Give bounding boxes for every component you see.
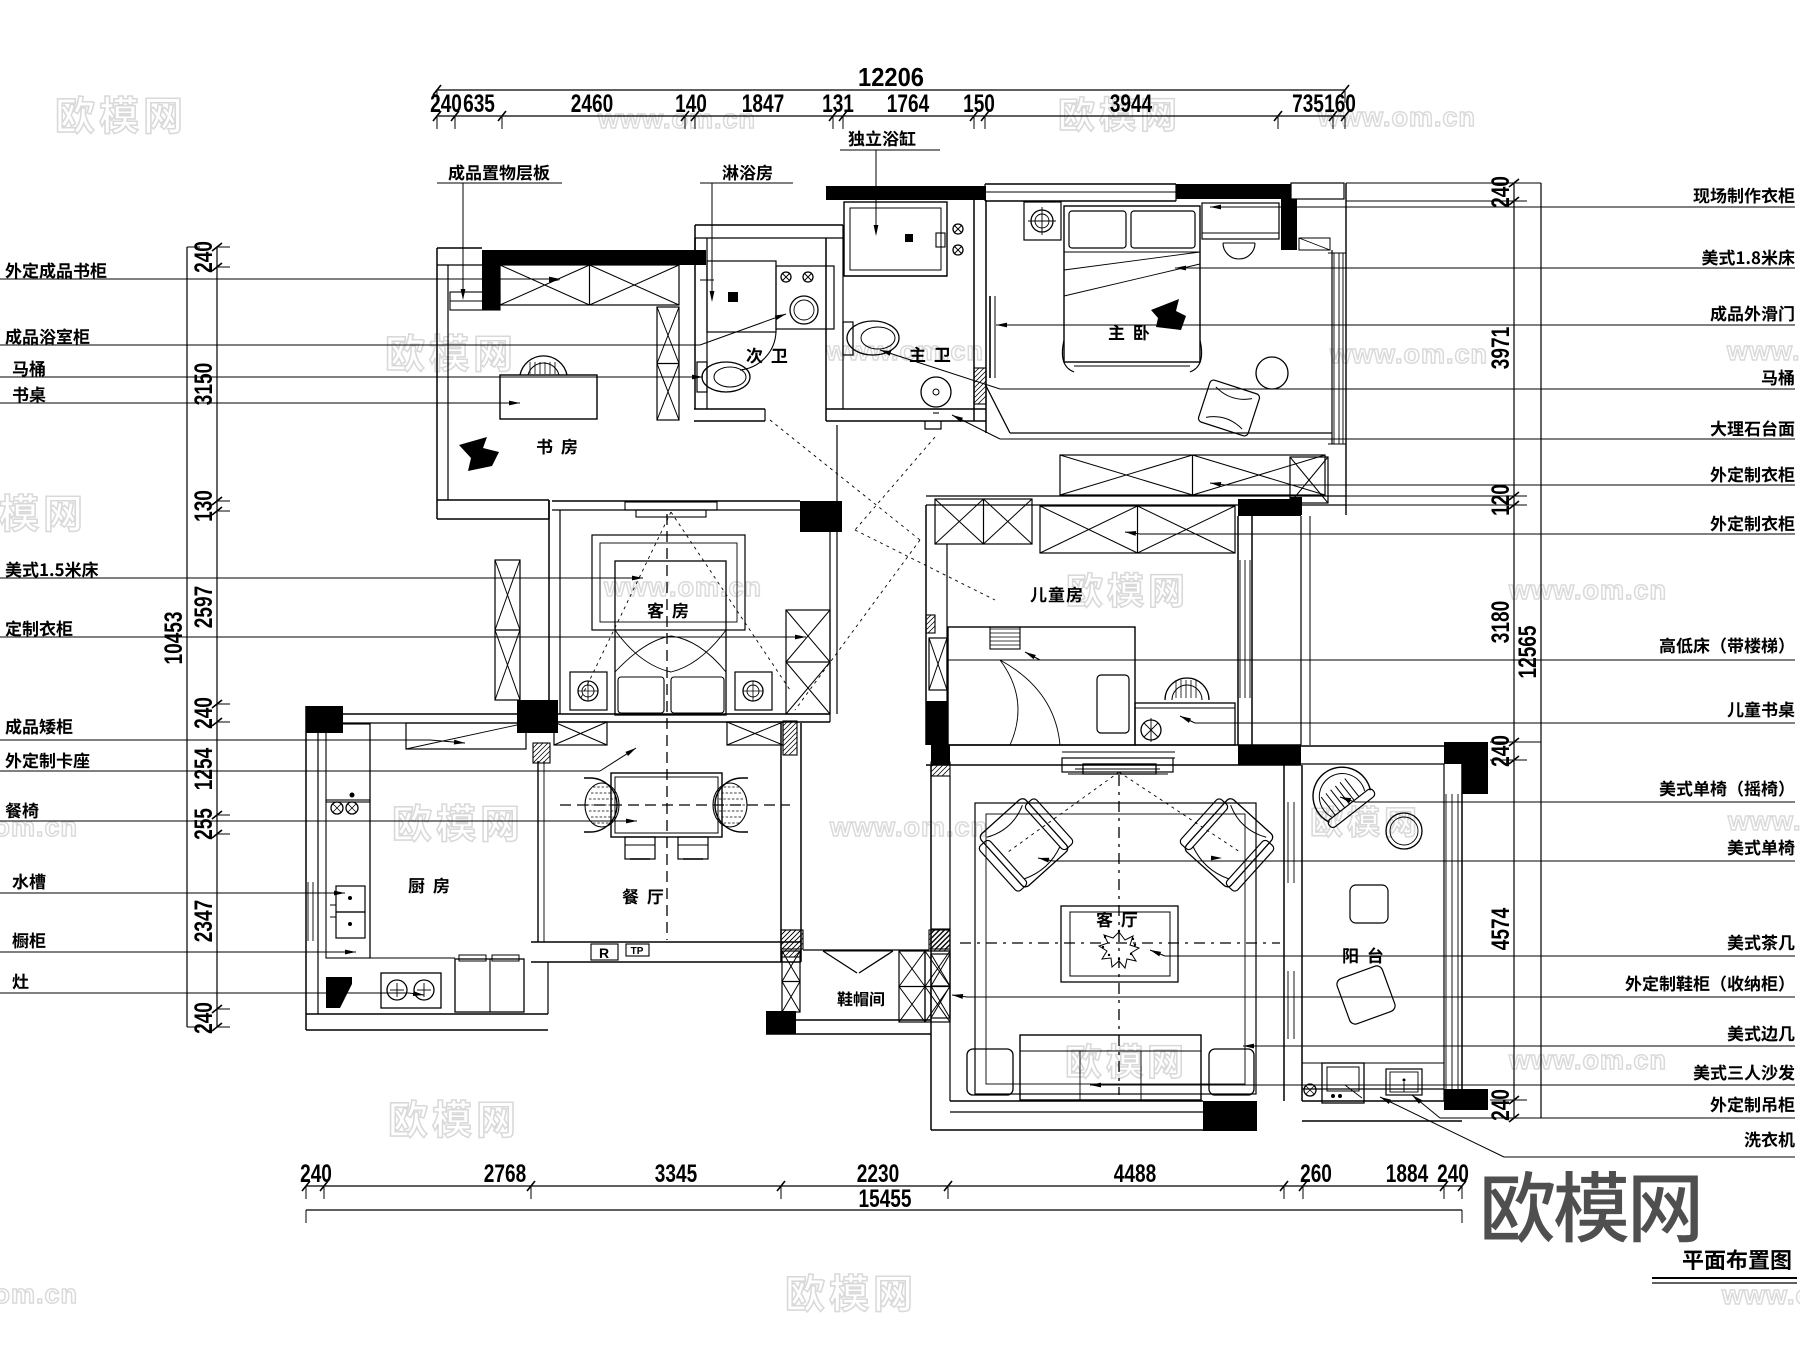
fixture: fridge bbox=[455, 955, 524, 1012]
svg-text:www.om.cn: www.om.cn bbox=[1508, 575, 1667, 605]
wall: balcony partition bbox=[1284, 765, 1302, 1101]
window: bay window right bbox=[1299, 183, 1346, 515]
furniture: guest bed canopy bbox=[592, 535, 745, 630]
wall: zhu-wei top black bar bbox=[826, 186, 986, 200]
svg-text:240: 240 bbox=[1487, 735, 1515, 767]
label: wai-ding-zhi yi-gui 2 bbox=[1125, 515, 1795, 535]
room label: ci wei bbox=[746, 348, 787, 364]
svg-text:240: 240 bbox=[1437, 1160, 1469, 1188]
wall: ci-wei top bbox=[695, 225, 843, 265]
wall: ci-wei/zhu-wei divider bbox=[826, 225, 843, 421]
furniture: guest bed bbox=[615, 561, 726, 715]
svg-text:12206: 12206 bbox=[858, 62, 924, 92]
svg-text:3971: 3971 bbox=[1487, 327, 1515, 369]
svg-text:www.om.cn: www.om.cn bbox=[1329, 339, 1488, 369]
label: mei-shi dan-yi yao-yi bbox=[1339, 780, 1795, 802]
svg-text:140: 140 bbox=[675, 90, 707, 118]
label: zao bbox=[0, 974, 424, 998]
svg-text:2597: 2597 bbox=[190, 586, 218, 628]
svg-text:4488: 4488 bbox=[1114, 1160, 1156, 1188]
svg-text:240: 240 bbox=[1487, 1089, 1515, 1121]
svg-text:130: 130 bbox=[190, 490, 218, 522]
fixture: ceiling lamp square bbox=[1024, 202, 1061, 240]
svg-text:3944: 3944 bbox=[1110, 90, 1152, 118]
sightline: tv dotted bbox=[1008, 772, 1240, 852]
cabinet: below-guest X boxes bbox=[554, 721, 797, 755]
fixture: zhu-wei toilet bbox=[843, 321, 899, 355]
logo: ou mo wang bbox=[1484, 1171, 1697, 1243]
furniture: guest nightstand left bbox=[570, 672, 607, 710]
arrow: bookcase bbox=[549, 278, 560, 283]
room label: ke fang bbox=[647, 602, 687, 618]
wall: balcony bottom-right black corner bbox=[1444, 1089, 1488, 1110]
svg-text:www.om.cn: www.om.cn bbox=[829, 812, 988, 842]
label: ding-zhi yi-gui bbox=[0, 620, 806, 639]
right dimension chain 12565 bbox=[1346, 176, 1542, 1122]
wall: ci-wei bottom bbox=[694, 409, 765, 421]
wall: book room left double bbox=[437, 248, 448, 519]
wall: ci-wei left double bbox=[695, 238, 707, 409]
wall: kitchen bottom bbox=[306, 962, 548, 1030]
fixture: kitchen sink bbox=[330, 886, 365, 938]
svg-text:3345: 3345 bbox=[655, 1160, 697, 1188]
wall: dining bottom bbox=[531, 942, 801, 962]
label: can-yi bbox=[0, 803, 637, 824]
label: wai-ding-zhi xie-gui bbox=[952, 975, 1795, 998]
svg-text:3180: 3180 bbox=[1487, 601, 1515, 643]
fixture: balcony cabinet box bbox=[1386, 1069, 1422, 1095]
label: wai-ding-zhi ka-zuo bbox=[0, 746, 637, 771]
bottom dimension chain 15455 bbox=[300, 1160, 1469, 1223]
fixture: washing machine bbox=[1322, 1063, 1364, 1103]
wall: shoe room bottom bbox=[766, 1011, 931, 1034]
plant: tea table plant scribble bbox=[1099, 930, 1139, 968]
window: master bedroom top window bbox=[985, 184, 1176, 201]
label: ma-tong (right) bbox=[879, 348, 1795, 389]
svg-text:240: 240 bbox=[430, 90, 462, 118]
svg-text:www.om.cn: www.om.cn bbox=[1726, 336, 1800, 366]
svg-text:www.om.cn: www.om.cn bbox=[603, 572, 762, 602]
furniture: desk bbox=[500, 375, 597, 419]
room label: chu fang bbox=[408, 878, 448, 894]
wall: balcony bottom bbox=[1302, 1101, 1462, 1121]
wall: balcony top bbox=[1238, 746, 1462, 764]
svg-text:240: 240 bbox=[190, 697, 218, 729]
window: balcony right window bbox=[1444, 746, 1462, 1101]
svg-text:2347: 2347 bbox=[190, 900, 218, 942]
wall: black pier below bar bbox=[1281, 199, 1297, 250]
svg-text:www.om.cn: www.om.cn bbox=[0, 1279, 78, 1309]
door: sliding door to master bedroom bbox=[990, 296, 995, 378]
label: du-li yu-gang bbox=[840, 130, 940, 236]
wall: tub partition bbox=[843, 275, 947, 277]
wall: balcony top-right black corner bbox=[1444, 742, 1488, 794]
furniture: guest nightstand right bbox=[735, 672, 772, 710]
label: mei-shi bian-ji bbox=[1243, 1025, 1795, 1048]
label: wai-ding cheng-pin shu-gui bbox=[0, 262, 560, 281]
label: cheng-pin yu-shi-gui bbox=[0, 312, 787, 345]
shelf: cheng-pin zhi-wu ceng-ban target bbox=[450, 292, 500, 310]
svg-text:131: 131 bbox=[822, 90, 854, 118]
room label: er tong fang bbox=[1030, 586, 1082, 602]
wall: children right bbox=[1238, 505, 1310, 765]
furniture: dining table bbox=[611, 773, 722, 837]
arrow: bed guest bbox=[0, 0, 1, 1]
svg-text:3150: 3150 bbox=[190, 363, 218, 405]
svg-text:1254: 1254 bbox=[190, 748, 218, 790]
svg-text:260: 260 bbox=[1300, 1160, 1332, 1188]
room label: ke ting bbox=[1096, 911, 1137, 927]
counter: kitchen left counter bbox=[326, 724, 370, 958]
svg-text:635: 635 bbox=[463, 90, 495, 118]
label: mei-shi san-ren sha-fa bbox=[1090, 1064, 1795, 1087]
svg-text:120: 120 bbox=[1487, 484, 1515, 516]
label: mei-shi cha-ji bbox=[1149, 934, 1795, 956]
furniture: dining chair right bbox=[713, 778, 748, 832]
room label: zhu wo bbox=[1109, 325, 1149, 341]
symbol: corner black triangle bbox=[326, 977, 352, 1008]
wall: kitchen left double bbox=[306, 706, 318, 1030]
svg-text:www.om.cn: www.om.cn bbox=[1508, 1045, 1667, 1075]
window: guest top window bbox=[625, 502, 717, 517]
svg-text:240: 240 bbox=[1487, 176, 1515, 208]
furniture: bedside table circle bbox=[1256, 357, 1288, 389]
furniture: dining chairs bottom bbox=[625, 837, 708, 859]
label: wai-ding-zhi diao-gui bbox=[1410, 1093, 1795, 1118]
svg-text:1884: 1884 bbox=[1386, 1160, 1428, 1188]
svg-text:160: 160 bbox=[1324, 90, 1356, 118]
wall: hall left (below ci-wei) bbox=[830, 425, 837, 722]
cabinet: bay bottom X box bbox=[1290, 457, 1328, 515]
svg-text:240: 240 bbox=[190, 1002, 218, 1034]
label: cheng-pin wai-hua-men bbox=[996, 305, 1795, 327]
wall: wardrobe zone top line bbox=[985, 384, 1332, 433]
cabinet: shoe room right X cols bbox=[899, 951, 950, 1022]
svg-text:www.om.cn: www.om.cn bbox=[1727, 806, 1800, 836]
cabinet: book room side X column bbox=[657, 307, 679, 420]
counter: kitchen bottom counter bbox=[370, 957, 455, 959]
door: kitchen sliding door bbox=[533, 743, 550, 942]
label: er-tong shu-zhuo bbox=[1179, 701, 1795, 723]
wall: book room top black bar bbox=[482, 250, 706, 310]
label: mei-shi 1.5 mi chuang bbox=[0, 561, 643, 580]
wall: master bedroom top black bar bbox=[1176, 184, 1291, 199]
wall: zhu-wei bottom bbox=[826, 409, 986, 429]
svg-text:10453: 10453 bbox=[160, 612, 188, 665]
cabinet: children top-left X wardrobe bbox=[935, 499, 1032, 544]
furniture: sofa bbox=[967, 1035, 1254, 1100]
label: shui-cao bbox=[0, 874, 345, 896]
furniture: master bed bbox=[1062, 206, 1201, 372]
fixture: R box bbox=[591, 944, 618, 961]
label: wai-ding-zhi yi-gui 1 bbox=[1210, 466, 1795, 486]
room label: xie mao jian bbox=[837, 991, 884, 1006]
cabinet: guest right X column bbox=[786, 610, 830, 714]
svg-text:4574: 4574 bbox=[1487, 908, 1515, 950]
top dimension chain 12206 bbox=[430, 62, 1356, 129]
furniture: children desk chair bbox=[1165, 678, 1209, 700]
label: shu-zhuo bbox=[0, 387, 520, 406]
sightline: guest room dotted bbox=[580, 512, 790, 700]
fixture: ci-wei vanity bbox=[776, 266, 834, 329]
furniture: tilted cushion chair bbox=[1197, 379, 1260, 437]
cabinet: shoe room left X col bbox=[782, 951, 800, 1012]
wall: guest top bbox=[552, 501, 842, 532]
furniture: armchair top-right bbox=[1177, 791, 1280, 894]
furniture: TV cabinet bbox=[1062, 758, 1173, 774]
wall: living left bbox=[931, 745, 950, 1130]
svg-text:TP: TP bbox=[631, 946, 644, 957]
svg-text:240: 240 bbox=[190, 241, 218, 273]
wall: children bottom bbox=[926, 745, 1301, 774]
label: cheng-pin zhi-wu ceng-ban bbox=[437, 164, 562, 300]
cabinet: bookcase X-row bbox=[500, 265, 679, 305]
wall: kitchen top bbox=[306, 700, 558, 733]
wall: guest bottom bbox=[528, 700, 830, 722]
wall: band below wardrobe row1 bbox=[926, 496, 1346, 516]
fixture: stove bbox=[381, 973, 441, 1008]
label: mei-shi 1.8 mi chuang bbox=[1175, 249, 1795, 270]
fixture: ci-wei toilet bbox=[697, 362, 750, 392]
wall: children left double bbox=[926, 505, 947, 745]
fixture: bathtub bbox=[844, 202, 963, 276]
wall: living bottom bbox=[931, 1101, 1257, 1131]
cabinet: living left X box bbox=[931, 954, 950, 1018]
room label: zhu wei bbox=[910, 347, 950, 362]
symbol: black arrow in master bedroom bbox=[1151, 299, 1186, 330]
label: xi-yi-ji bbox=[1379, 1095, 1795, 1157]
svg-text:15455: 15455 bbox=[859, 1185, 912, 1213]
svg-text:12565: 12565 bbox=[1514, 625, 1542, 678]
svg-text:www.om.cn: www.om.cn bbox=[825, 336, 984, 366]
label: gao-di-chuang bbox=[1024, 637, 1795, 660]
svg-text:R: R bbox=[599, 945, 609, 961]
left dimension chain 10453 bbox=[160, 241, 230, 1034]
furniture: dining chair left bbox=[584, 778, 619, 832]
svg-text:2230: 2230 bbox=[857, 1160, 899, 1188]
svg-text:www.om.cn: www.om.cn bbox=[1721, 1280, 1800, 1310]
centerline: living cross bbox=[960, 775, 1280, 1095]
wall: bay top connector bbox=[1291, 183, 1344, 199]
title: ping-mian-bu-zhi-tu bbox=[1652, 1249, 1797, 1283]
furniture: armchair top-left bbox=[972, 791, 1075, 894]
sightline: hall dotted bbox=[770, 420, 995, 710]
rug: living room rug bbox=[975, 803, 1256, 1094]
label: xian-chang zhi-zuo yi-gui bbox=[1210, 187, 1795, 209]
furniture: balcony stool 2 bbox=[1335, 964, 1397, 1026]
furniture: tea table bbox=[1061, 906, 1178, 982]
furniture: bunk bed bbox=[948, 627, 1135, 745]
wall: guest left double bbox=[549, 501, 560, 722]
fixture: zhu-wei basin bbox=[921, 377, 951, 413]
fixture: shower stall bbox=[700, 261, 776, 370]
svg-text:1764: 1764 bbox=[887, 90, 929, 118]
label: chu-gui bbox=[0, 933, 356, 955]
svg-text:2460: 2460 bbox=[571, 90, 613, 118]
label: mei-shi dan-yi bbox=[1038, 839, 1795, 862]
label: ma-tong (left) bbox=[0, 361, 703, 380]
cabinet: site-made wardrobe box bbox=[1202, 203, 1279, 239]
counter: balcony bottom counter bbox=[1302, 1063, 1444, 1089]
room label: shu fang bbox=[537, 439, 577, 455]
label: cheng-pin ai-gui bbox=[0, 718, 465, 745]
wall: shoe room top bbox=[781, 930, 950, 950]
symbol: kitchen switch circles bbox=[331, 793, 358, 815]
furniture: rocking chair bbox=[1301, 755, 1377, 829]
counter: kitchen tall cabinets bbox=[326, 724, 370, 802]
svg-text:255: 255 bbox=[190, 808, 218, 840]
room label: can ting bbox=[622, 889, 663, 905]
cabinet: corridor X column bbox=[495, 560, 520, 700]
centerline: dining cross bbox=[560, 514, 790, 940]
symbol: balcony lamp bbox=[1304, 1084, 1316, 1096]
door: entrance V door bbox=[823, 951, 893, 973]
door: closet arc near bay bbox=[1223, 243, 1255, 259]
svg-text:150: 150 bbox=[963, 90, 995, 118]
wall: book room bottom bbox=[437, 500, 549, 519]
svg-text:735: 735 bbox=[1292, 90, 1324, 118]
cabinet: low cabinet (ai gui) bbox=[406, 723, 526, 749]
wall: book room top thin bbox=[437, 248, 482, 265]
label: lin-yu-fang bbox=[700, 165, 793, 302]
cabinet: wardrobe X row 2 bbox=[1040, 506, 1235, 553]
wall: dining right double bbox=[781, 723, 801, 962]
room label: yang tai bbox=[1343, 947, 1383, 963]
svg-text:1847: 1847 bbox=[742, 90, 784, 118]
furniture: children desk bbox=[1135, 703, 1235, 745]
wall: zhu-wei right double bbox=[974, 200, 986, 433]
svg-text:240: 240 bbox=[300, 1160, 332, 1188]
furniture: desk chair bbox=[520, 356, 567, 375]
fixture: desk lamp symbol bbox=[1141, 718, 1161, 742]
furniture: balcony stool 1 bbox=[1350, 885, 1388, 923]
label: da-li-shi tai-mian bbox=[951, 413, 1795, 439]
furniture: balcony round table bbox=[1386, 813, 1422, 849]
cabinet: wardrobe X row 1 bbox=[1060, 455, 1325, 495]
svg-text:2768: 2768 bbox=[484, 1160, 526, 1188]
symbol: compass black arrow in book room bbox=[459, 437, 499, 471]
fixture: TP box bbox=[626, 944, 649, 957]
